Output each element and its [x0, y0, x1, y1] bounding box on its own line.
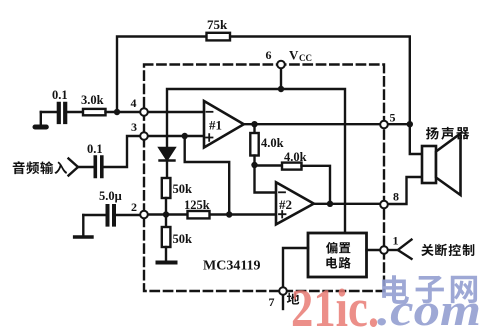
wire bias to pin 7 ground [283, 248, 308, 287]
wire 50k chain [165, 198, 167, 227]
op-amp #1 plus input mark [206, 134, 213, 141]
svg-text:.com: .com [377, 285, 481, 328]
capacitor C3 5.0u [108, 206, 115, 225]
svg-text:8: 8 [393, 190, 399, 204]
wire 4.0k feedback to output [302, 166, 331, 204]
wire to op-amp #2 inverting input [255, 165, 277, 193]
svg-text:6: 6 [266, 48, 272, 62]
resistor 3.0k [83, 109, 106, 115]
op-amp #2 plus input mark [279, 211, 286, 218]
label speaker (yang sheng qi) [426, 127, 439, 140]
label ground (di) [287, 293, 299, 305]
svg-text:3: 3 [131, 120, 137, 134]
svg-text:MC34119: MC34119 [203, 259, 261, 274]
wire pin3 to op-amp #1 noninverting input [148, 135, 204, 137]
bias circuit block [308, 233, 367, 277]
watermark dianziwang blue [382, 275, 409, 304]
bias circuit text line1 (pian zhi) [326, 242, 337, 254]
wire [253, 124, 255, 133]
svg-text:CC: CC [299, 53, 312, 63]
resistor 125k [188, 211, 210, 218]
label audio input (yin pin shu ru) [13, 161, 25, 174]
op-amp #2 minus input mark [279, 191, 285, 193]
speaker LS1 [422, 146, 436, 183]
capacitor C2 0.1 [95, 157, 102, 177]
op-amp #1 minus input mark [207, 111, 213, 113]
diode D1 [160, 148, 175, 160]
wire pin3 node to 125k node [185, 136, 230, 215]
resistor 50k lower [162, 227, 171, 247]
svg-text:50k: 50k [173, 182, 193, 196]
wire pin 7 external stub [282, 295, 284, 309]
wire top feedback net [117, 37, 410, 125]
svg-text:4: 4 [131, 96, 137, 110]
junction dots [114, 86, 413, 218]
wire op-amp #2 output to pin 8 [314, 203, 380, 205]
ground top-left [40, 112, 42, 125]
wire [78, 166, 93, 168]
svg-text:75k: 75k [207, 17, 228, 32]
ground below C3 [82, 215, 84, 236]
wire to pin 3 [104, 136, 140, 167]
label shutdown control (guan duan kong zhi) [421, 244, 433, 256]
svg-text:#2: #2 [279, 197, 292, 212]
wire bias to pin 1 [367, 249, 381, 251]
resistor 4.0k second [282, 163, 302, 170]
wire pin5 net to speaker [410, 124, 421, 154]
wire [67, 111, 83, 113]
wire to pin 2 [116, 214, 140, 216]
wire Vcc rail [167, 65, 345, 234]
shutdown control arrow [388, 249, 399, 251]
op-amp U1 #1 [204, 101, 244, 148]
svg-text:V: V [289, 48, 299, 63]
svg-text:21ic.: 21ic. [291, 278, 379, 328]
wire pin4 to op-amp #1 inverting input [148, 111, 204, 113]
svg-text:7: 7 [269, 295, 275, 309]
wire [41, 111, 57, 113]
capacitor C1 0.1 [59, 104, 65, 122]
svg-text:125k: 125k [184, 198, 210, 212]
wire pin8 to speaker [388, 177, 421, 204]
svg-text:4.0k: 4.0k [261, 136, 284, 150]
svg-text:0.1: 0.1 [52, 88, 68, 102]
wire [253, 156, 255, 166]
audio input arrow [69, 159, 79, 176]
resistor 50k upper [162, 178, 171, 198]
svg-text:5: 5 [390, 111, 396, 125]
IC MC34119 dashed boundary [144, 65, 384, 292]
wire op-amp #1 output to pin 5 [244, 123, 410, 125]
svg-text:0.1: 0.1 [87, 142, 103, 156]
svg-text:#1: #1 [209, 118, 222, 133]
resistor 4.0k first [250, 133, 258, 156]
resistor 75k [207, 33, 231, 41]
bias circuit text line2 (dian lu) [326, 257, 337, 269]
wire [83, 214, 105, 216]
svg-text:4.0k: 4.0k [284, 150, 307, 164]
svg-text:1: 1 [393, 234, 399, 248]
svg-text:5.0μ: 5.0μ [99, 189, 122, 203]
wire pin2 row [148, 213, 276, 215]
wire 4.0k feedback left [255, 164, 283, 166]
svg-text:3.0k: 3.0k [81, 93, 104, 107]
wire to pin 4 [106, 111, 141, 113]
wire to internal ground [165, 247, 167, 261]
svg-text:2: 2 [131, 200, 137, 214]
ground internal bar [158, 261, 176, 265]
op-amp U2 #2 [276, 182, 314, 224]
svg-text:50k: 50k [173, 232, 193, 246]
pin terminal circles [140, 61, 388, 295]
